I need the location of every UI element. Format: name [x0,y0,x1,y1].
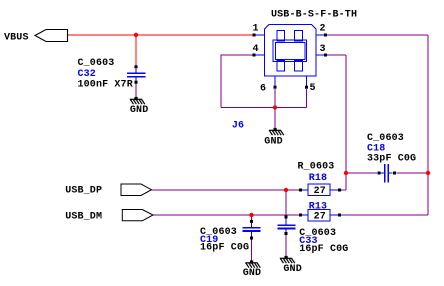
svg-text:J6: J6 [232,120,244,131]
svg-text:R18: R18 [309,173,327,184]
svg-text:GND: GND [264,137,282,148]
svg-text:USB_DP: USB_DP [65,186,102,197]
svg-text:USB-B-S-F-B-TH: USB-B-S-F-B-TH [271,10,357,21]
svg-text:5: 5 [310,83,316,94]
svg-text:C_0603: C_0603 [78,58,115,69]
svg-text:27: 27 [314,211,326,222]
svg-text:R_0603: R_0603 [298,161,335,172]
svg-text:1: 1 [253,24,259,35]
svg-text:2: 2 [320,24,326,35]
svg-text:6: 6 [260,83,266,94]
svg-text:3: 3 [320,44,326,55]
svg-text:GND: GND [283,264,301,275]
svg-text:USB_DM: USB_DM [65,211,102,222]
svg-text:GND: GND [243,268,261,279]
svg-text:27: 27 [314,186,326,197]
svg-text:33pF C0G: 33pF C0G [367,154,416,165]
svg-text:16pF C0G: 16pF C0G [200,243,249,254]
svg-text:100nF X7R: 100nF X7R [78,80,133,91]
svg-text:GND: GND [130,105,148,116]
svg-text:VBUS: VBUS [4,33,29,44]
svg-text:C32: C32 [78,69,96,80]
svg-text:4: 4 [253,44,259,55]
svg-text:16pF C0G: 16pF C0G [299,244,348,255]
